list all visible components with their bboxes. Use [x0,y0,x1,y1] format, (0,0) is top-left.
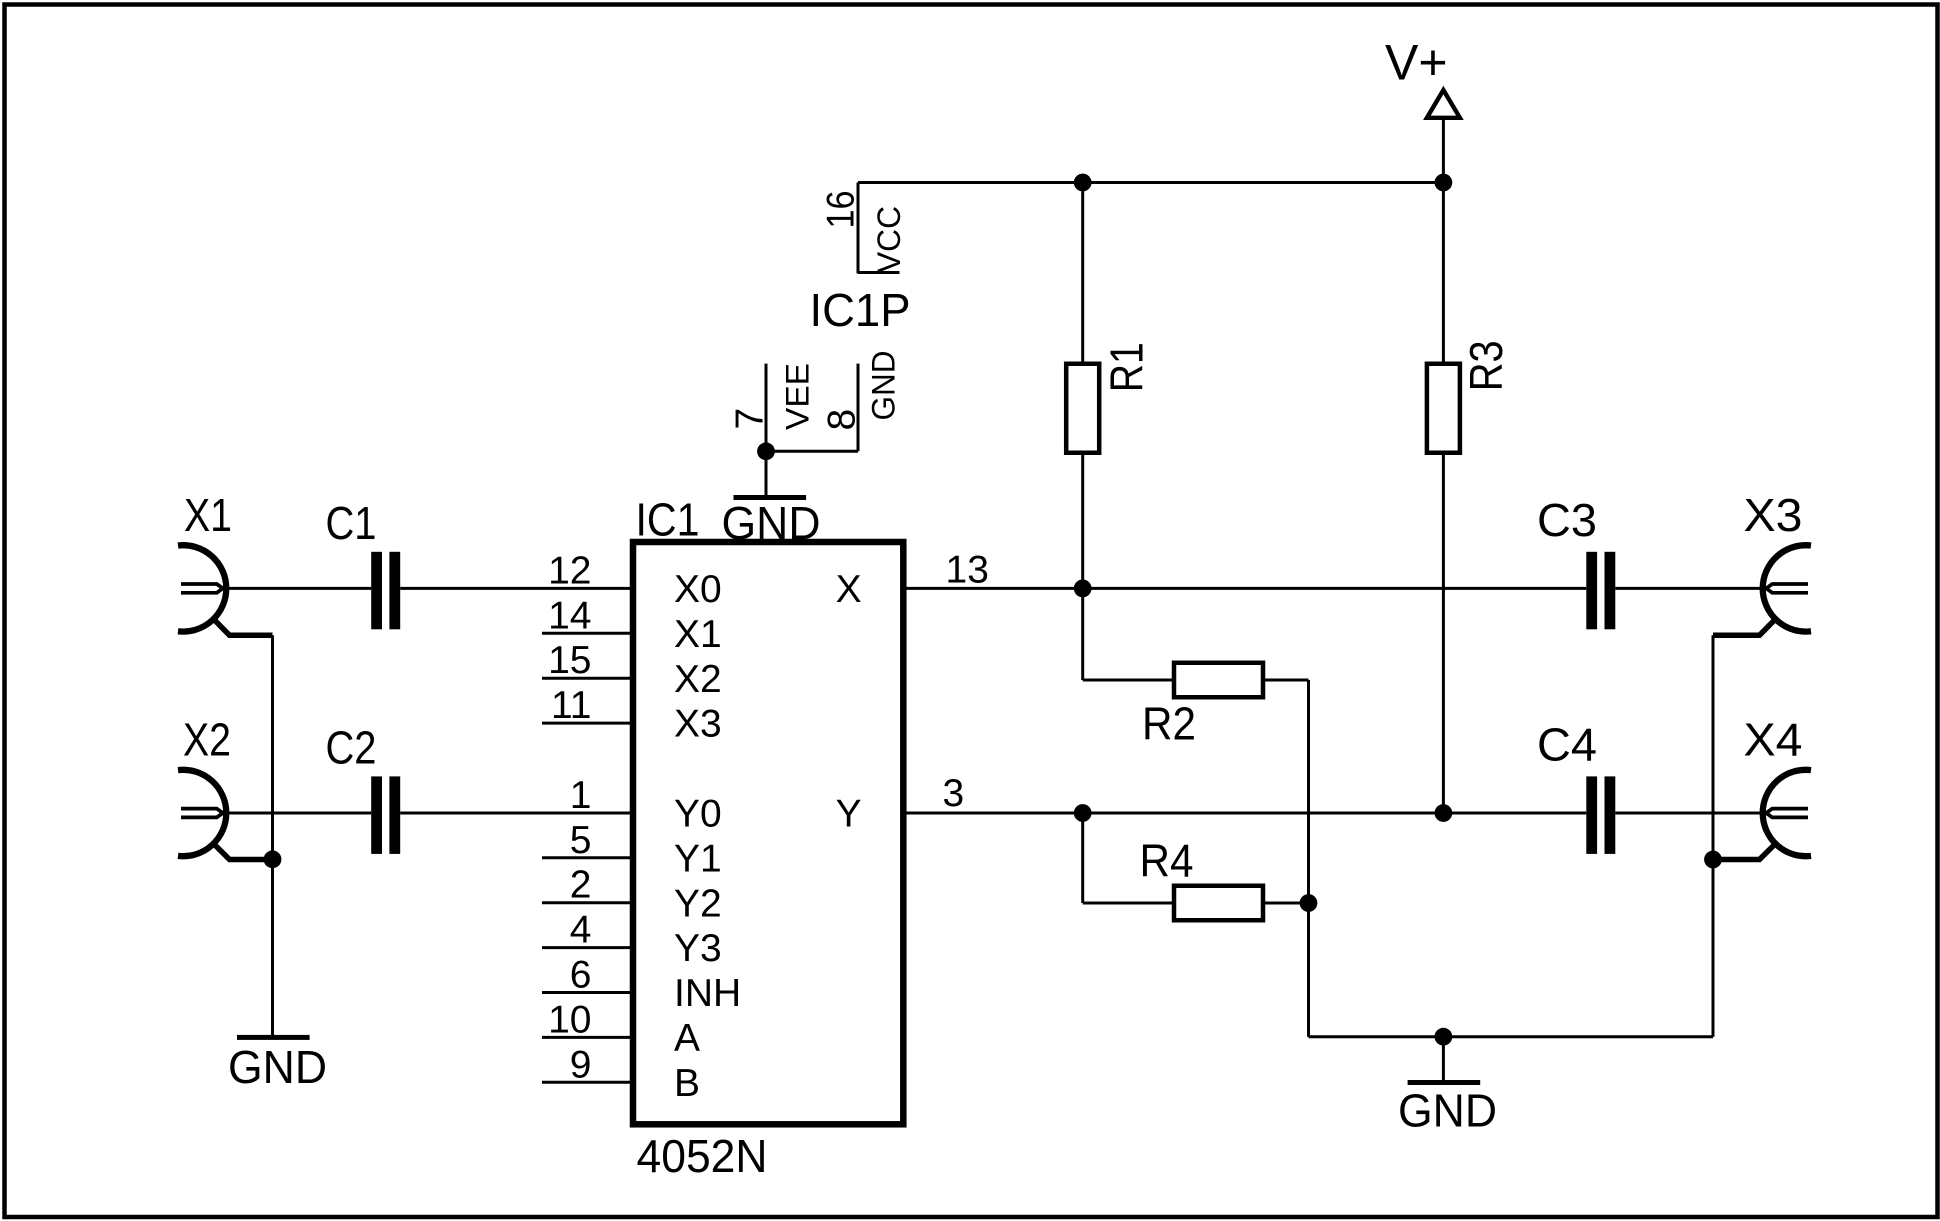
connector X3 [1763,545,1811,631]
svg-text:R3: R3 [1460,340,1512,391]
junction [1074,580,1092,598]
pin 5 stub [542,856,633,859]
svg-text:X0: X0 [674,568,722,611]
junction [1074,174,1092,192]
ground GND [734,495,807,500]
svg-text:4: 4 [570,909,592,952]
ground GND [1408,1080,1481,1085]
wire [1081,588,1084,680]
junction [1074,804,1092,822]
svg-text:GND: GND [722,497,821,549]
svg-text:6: 6 [570,954,592,997]
connector X4 sleeve contact [1713,844,1775,859]
wire [1081,183,1084,364]
wire [1712,635,1715,1036]
svg-text:X1: X1 [184,489,232,541]
svg-text:12: 12 [548,549,591,592]
svg-text:VEE: VEE [780,363,816,430]
svg-text:16: 16 [820,191,863,229]
connector X4 [1763,770,1811,856]
svg-text:R2: R2 [1142,697,1196,749]
junction [757,442,775,460]
svg-text:X1: X1 [674,613,722,656]
wire [222,812,371,815]
wire [1307,680,1310,1037]
pin 16 tick [858,271,900,274]
wire [1263,902,1309,905]
capacitor C2 [371,776,382,854]
svg-text:7: 7 [729,408,772,430]
pin 6 stub [542,991,633,994]
svg-text:A: A [674,1017,700,1060]
wire [271,859,274,1035]
svg-text:C2: C2 [326,722,377,774]
svg-text:1: 1 [570,774,592,817]
power symbol IC1P pin 8 line [857,364,860,452]
power symbol IC1P pin 16 line [857,183,860,274]
svg-text:11: 11 [551,684,592,727]
wire [271,635,274,859]
svg-text:X3: X3 [674,703,722,746]
wire [1615,587,1766,590]
connector X2 sleeve contact [214,844,272,859]
pin 4 stub [542,946,633,949]
wire [1083,679,1174,682]
connector X2 [178,770,226,856]
junction [1704,851,1722,869]
wire [1083,902,1174,905]
svg-text:GND: GND [228,1041,327,1093]
svg-text:Y: Y [836,793,862,836]
wire [903,587,1586,590]
resistor R1 [1066,364,1099,453]
svg-text:GND: GND [1398,1085,1497,1137]
junction [1300,894,1318,912]
ground GND [237,1035,310,1040]
wire [400,587,633,590]
wire [903,812,1586,815]
svg-text:INH: INH [674,972,741,1015]
pin 14 stub [542,632,633,635]
svg-text:IC1: IC1 [636,494,700,546]
wire [1442,183,1445,364]
IC IC1 (4052N) box [633,542,903,1124]
junction [1435,1028,1453,1046]
wire [766,450,858,453]
resistor R3 [1427,364,1460,453]
pin 2 stub [542,901,633,904]
connector X1 sleeve contact [214,620,272,636]
pin 10 stub [542,1036,633,1039]
svg-text:4052N: 4052N [637,1130,768,1182]
svg-text:R4: R4 [1140,835,1194,887]
svg-text:Y0: Y0 [674,793,722,836]
resistor R4 [1174,886,1263,921]
svg-text:VCC: VCC [871,206,907,273]
svg-text:B: B [674,1062,700,1105]
svg-text:3: 3 [943,772,965,815]
wire [1615,812,1766,815]
power symbol IC1P pin 7 line [765,364,768,452]
wire [1309,1035,1714,1038]
svg-text:9: 9 [570,1043,592,1086]
capacitor C3 [1586,552,1597,630]
connector X1 [178,545,226,631]
svg-text:15: 15 [548,639,591,682]
connector X3 sleeve contact [1713,620,1775,636]
svg-text:Y1: Y1 [674,837,722,880]
wire [1442,453,1445,813]
svg-text:2: 2 [570,864,592,907]
svg-text:R1: R1 [1101,342,1153,392]
svg-text:X2: X2 [183,714,231,766]
pin 9 stub [542,1081,633,1084]
wire [1442,1037,1445,1080]
svg-text:C3: C3 [1537,494,1597,546]
svg-text:C4: C4 [1537,719,1597,771]
wire [1263,679,1309,682]
wire [400,812,633,815]
svg-text:IC1P: IC1P [810,284,911,336]
svg-text:10: 10 [548,998,591,1041]
svg-text:GND: GND [866,351,902,421]
svg-text:5: 5 [570,819,592,862]
wire [222,587,371,590]
wire [765,451,768,495]
svg-text:X4: X4 [1744,714,1803,766]
svg-text:X2: X2 [674,658,722,701]
wire [1081,453,1084,589]
capacitor C4 [1586,776,1597,854]
svg-text:X: X [836,568,862,611]
capacitor C1 [371,552,382,630]
power V+ symbol [1427,90,1460,118]
svg-text:V+: V+ [1385,35,1448,91]
pin 15 stub [542,677,633,680]
wire [1081,813,1084,903]
svg-text:13: 13 [946,548,989,591]
svg-text:Y2: Y2 [674,882,722,925]
junction [1435,174,1453,192]
resistor R2 [1174,663,1263,698]
svg-text:14: 14 [548,594,591,637]
svg-text:C1: C1 [326,497,377,549]
pin 11 stub [542,722,633,725]
svg-text:X3: X3 [1744,489,1803,541]
junction [1435,804,1453,822]
svg-text:Y3: Y3 [674,927,722,970]
wire [858,181,1443,184]
svg-text:8: 8 [821,409,864,431]
junction [264,850,282,868]
